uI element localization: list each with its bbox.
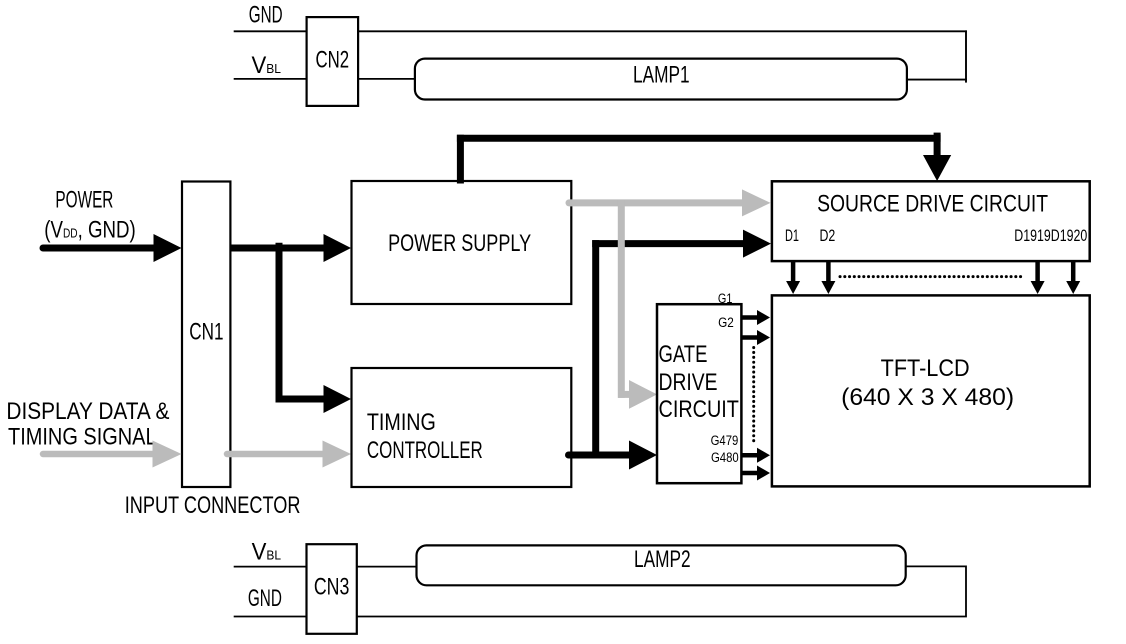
wire source output arrow 2 — [821, 261, 835, 294]
wire GND to CN2 — [234, 30, 307, 32]
svg-text:LAMP1: LAMP1 — [633, 62, 690, 89]
svg-text:TIMING SIGNAL: TIMING SIGNAL — [8, 423, 157, 450]
svg-text:(VDD, GND): (VDD, GND) — [44, 216, 135, 243]
svg-text:CIRCUIT: CIRCUIT — [659, 396, 740, 423]
svg-text:CN2: CN2 — [316, 46, 350, 73]
block POWER SUPPLY — [352, 181, 572, 304]
svg-text:CONTROLLER: CONTROLLER — [367, 437, 483, 464]
svg-text:DRIVE: DRIVE — [659, 369, 718, 396]
lamp LAMP2 — [417, 545, 906, 585]
svg-text:INPUT CONNECTOR: INPUT CONNECTOR — [125, 492, 301, 519]
wire dotted ellipsis between gate outputs — [752, 348, 755, 444]
svg-text:GND: GND — [248, 585, 282, 612]
svg-text:TIMING: TIMING — [367, 409, 436, 436]
svg-text:G2: G2 — [718, 315, 734, 330]
svg-text:CN1: CN1 — [189, 319, 223, 346]
wire junction to GATE DRIVE arrow — [596, 452, 632, 459]
block TFT-LCD — [772, 295, 1090, 486]
wire CN2 to right (GND return) — [358, 30, 967, 32]
svg-text:LAMP2: LAMP2 — [634, 546, 691, 573]
svg-text:GATE: GATE — [659, 341, 708, 368]
wire gate output arrow 2 — [741, 330, 770, 345]
wire VBL to CN3 — [234, 566, 307, 568]
wire gate output arrow 1 — [741, 310, 770, 325]
block SOURCE DRIVE CIRCUIT — [772, 181, 1090, 261]
svg-text:D1919D1920: D1919D1920 — [1014, 227, 1087, 245]
svg-text:POWER: POWER — [55, 187, 113, 214]
lamp LAMP1 — [415, 59, 907, 100]
wire source output arrow 4 — [1066, 261, 1080, 294]
svg-text:D2: D2 — [820, 227, 836, 245]
wire GND to CN3 — [234, 616, 307, 618]
svg-text:(640 X 3 X 480): (640 X 3 X 480) — [841, 384, 1014, 411]
svg-text:G479: G479 — [711, 433, 739, 448]
svg-text:G1: G1 — [718, 291, 733, 306]
svg-text:G480: G480 — [711, 450, 739, 465]
wire DISPLAY DATA gray arrow into CN1 — [43, 451, 155, 458]
block TIMING CONTROLLER — [352, 368, 572, 487]
wire junction branch down — [276, 243, 283, 403]
svg-text:DISPLAY DATA &: DISPLAY DATA & — [6, 398, 169, 425]
svg-text:POWER SUPPLY: POWER SUPPLY — [388, 230, 531, 257]
svg-text:D1: D1 — [785, 227, 799, 245]
wire dotted ellipsis between source outputs — [840, 275, 1021, 278]
connector CN2 — [307, 17, 359, 106]
wire POWER arrow into CN1 — [43, 245, 155, 252]
wire gate output arrow 3 — [741, 448, 770, 463]
wire LAMP2 right GND return — [357, 566, 966, 616]
wire source output arrow 1 — [786, 261, 800, 294]
connector CN3 — [307, 544, 357, 634]
svg-text:SOURCE DRIVE CIRCUIT: SOURCE DRIVE CIRCUIT — [817, 190, 1048, 217]
wire CN1 to POWER SUPPLY — [230, 245, 327, 252]
svg-text:GND: GND — [249, 2, 283, 29]
wire CN2 to LAMP1 — [358, 78, 415, 80]
svg-text:CN3: CN3 — [314, 573, 350, 600]
connector CN1 — [182, 182, 230, 488]
block GATE DRIVE CIRCUIT — [657, 304, 741, 483]
wire gray CN1 to TIMING CONTROLLER — [227, 451, 327, 458]
wire branch to TIMING CONTROLLER — [276, 396, 328, 403]
wire TIMING CONTROLLER to SOURCE DRIVE (thick black L) — [569, 452, 600, 459]
wire gray vertical branch to GATE DRIVE — [618, 200, 625, 398]
wire CN3 to LAMP2 — [357, 566, 417, 568]
wire gray POWER SUPPLY to SOURCE DRIVE — [569, 199, 745, 206]
wire source output arrow 3 — [1031, 261, 1045, 294]
wire VBL to CN2 — [234, 78, 307, 80]
wire gate output arrow 4 — [741, 466, 770, 481]
svg-text:TFT-LCD: TFT-LCD — [881, 355, 970, 382]
wire POWER SUPPLY top to SOURCE DRIVE (thick) — [457, 135, 464, 184]
